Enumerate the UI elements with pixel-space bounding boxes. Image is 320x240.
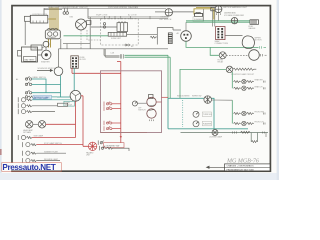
green wire top right 2 (186, 21, 250, 23)
starter motor circle (42, 50, 51, 59)
winding ticks (149, 105, 155, 121)
watermark red outline box (2, 163, 62, 172)
wire bottom cluster row 2 (105, 147, 129, 151)
olive link control box to bundle (48, 18, 56, 20)
svg-text:1976 MGB WIRING DIAGRAM: 1976 MGB WIRING DIAGRAM (108, 6, 138, 9)
red wire row 5 (37, 144, 84, 146)
lighting switch circle (70, 90, 81, 101)
battery bracket wire (18, 51, 22, 57)
red junction arrow (120, 136, 122, 138)
red wire box to green vertical (162, 96, 169, 98)
svg-text:SOLENOID SWITCH: SOLENOID SWITCH (38, 68, 56, 70)
svg-text:B6: B6 (131, 46, 133, 48)
label box flasher switch 2 (202, 121, 211, 126)
solenoid circle (54, 67, 63, 76)
bottom page edge strip (0, 173, 279, 180)
olive wire below dynamo 2 (50, 39, 52, 48)
teal box outline (168, 98, 248, 129)
teal wire bottom run (57, 96, 70, 98)
connector box left of control box (25, 16, 31, 21)
green vertical right lamps (231, 72, 233, 88)
wire ticks mid bottom (233, 131, 237, 133)
red wire vertical b (81, 96, 88, 147)
drop wire 2 (256, 133, 258, 142)
wire battery to starter (38, 54, 42, 56)
ignition switch circle (76, 19, 87, 30)
turn row end ticks (263, 113, 265, 125)
olive wire bundle 5 (57, 8, 59, 31)
red wire pin board drop (71, 68, 73, 73)
fuse ladder block (168, 33, 172, 44)
svg-text:VOLTAGE STABILISER: VOLTAGE STABILISER (224, 14, 245, 17)
dashed wire to horn (226, 54, 249, 56)
wire from relay box 2 (127, 33, 158, 35)
green wire top right 1 (186, 20, 250, 22)
small box on maroon area (149, 95, 154, 99)
drop wire 1 (250, 133, 252, 142)
rear lamp row 1 (234, 79, 254, 83)
green wire long mid-top (64, 35, 109, 37)
svg-text:Pressauto.NET: Pressauto.NET (2, 163, 55, 172)
maroon big box (101, 71, 162, 133)
dynamo coil circle 2 (53, 32, 57, 36)
svg-text:MAP LIGHT FEED: MAP LIGHT FEED (33, 97, 49, 100)
lamp row 5 symbol (23, 142, 37, 147)
wire dip to coils (137, 102, 146, 104)
maroon switch row 3 (104, 121, 112, 126)
yellow loop second line (196, 7, 212, 9)
teal wire switch 1 (32, 79, 46, 93)
svg-text:WINDSCREEN: WINDSCREEN (177, 96, 190, 98)
lamp row 7 symbol (23, 158, 37, 163)
dynamo coil circle 1 (48, 32, 52, 36)
green wire pair 2 (125, 56, 171, 58)
lighting switch label box (64, 101, 75, 106)
flasher switch circle 2 (193, 121, 199, 127)
red wire maroon row 2 (112, 108, 121, 110)
teal wire switch 3 (32, 92, 61, 94)
control box terminal ticks (33, 21, 44, 24)
wire top bus 1 (44, 7, 166, 9)
bus tick marks (104, 16, 150, 19)
green wire beam lamp feed (180, 69, 226, 98)
svg-text:NUMBER PLATE: NUMBER PLATE (44, 150, 59, 153)
lamp row 4 symbol (18, 135, 32, 140)
starter dot (45, 53, 48, 56)
gauge base dashes (216, 13, 220, 15)
lamp row 2 symbol (18, 103, 32, 108)
ignition switch spokes (77, 21, 86, 29)
wire vertical right of switch (89, 17, 91, 49)
resistor zigzag right of beam lamp (233, 68, 256, 70)
wire top bus 3 (88, 17, 168, 19)
bottom contact circles of dashed box (125, 44, 130, 46)
green wire end marks (260, 46, 267, 48)
terminal box on loop (211, 8, 215, 11)
lamp row 3 symbol (18, 109, 32, 114)
wire flasher drop (202, 9, 204, 21)
coil feed box (31, 45, 42, 50)
svg-text:BATTERY: BATTERY (25, 58, 35, 61)
title block box (225, 164, 271, 171)
wire into top lamp (155, 11, 165, 13)
control box feed riser (43, 8, 45, 15)
ignition coil circle (43, 41, 49, 47)
svg-text:A4: A4 (16, 78, 18, 81)
zigzag bottom 1 (241, 131, 251, 133)
label box flasher switch 1 (202, 112, 211, 117)
lower zigzag between drops (251, 141, 258, 143)
socket pins (183, 34, 188, 39)
relay contact circle 2 (103, 26, 105, 28)
wire top bus 1b (44, 9, 62, 11)
battery label box (24, 57, 37, 62)
svg-text:FUSE UNIT: FUSE UNIT (111, 38, 122, 40)
toggle switch 1 (25, 76, 31, 80)
relay box 1 (117, 21, 128, 31)
svg-text:TURN SIG: TURN SIG (203, 114, 212, 116)
lamp circle top center (165, 9, 172, 16)
dip switch circle (132, 101, 137, 106)
dotted vertical in teal box (182, 100, 184, 127)
teal wire pin board to lighting switch (73, 68, 75, 90)
bottom cluster switch row 2 (99, 146, 105, 151)
winding loop circle A (147, 97, 156, 106)
svg-text:RELAY: RELAY (218, 61, 225, 64)
svg-text:SWITCH: SWITCH (138, 110, 146, 112)
wire to relay box 1 (91, 26, 117, 28)
left page edge strip (0, 0, 2, 180)
red wire long vertical (120, 62, 122, 143)
wiper motor blob (242, 36, 254, 49)
watermark backing (2, 163, 62, 171)
wire row 7 (37, 160, 61, 162)
wire box to coil (42, 47, 46, 50)
maroon switch row 2 (104, 106, 112, 111)
green vertical right lower (231, 100, 233, 123)
end marks bottom wire (263, 132, 267, 138)
flasher switch circle 1 (193, 111, 199, 117)
svg-text:MOTOR: MOTOR (255, 40, 263, 42)
staircase wires into green pair (104, 49, 120, 58)
dashed wire L to relay box (87, 30, 101, 40)
svg-text:FRONT LH: FRONT LH (255, 122, 265, 124)
fuel gauge hatched box (250, 20, 259, 25)
headlamp circle 2 (38, 121, 45, 128)
svg-text:FROM BENTLEY BOTTOM: FROM BENTLEY BOTTOM (227, 169, 254, 171)
maroon wire bottom left run (101, 132, 148, 134)
yellow flasher loop (194, 9, 214, 20)
olive wire bundle 4 (55, 8, 57, 31)
control box (30, 15, 48, 23)
bottom cluster switch row 1 (98, 140, 104, 145)
arrow to title block (207, 166, 225, 168)
olive wire bundle 1 (49, 8, 51, 31)
svg-text:KEY SWITCH: KEY SWITCH (160, 19, 172, 21)
svg-text:COURTESY SW: COURTESY SW (105, 146, 120, 148)
red wire maroon row 3 (112, 122, 121, 124)
accessory socket circle (181, 31, 192, 42)
green wire from socket (186, 41, 259, 47)
maroon wire loop to box edge (156, 101, 161, 103)
svg-text:A5: A5 (177, 32, 179, 35)
svg-text:DIP MAIN: DIP MAIN (23, 131, 32, 134)
relay contact circle 1 (103, 23, 105, 25)
svg-text:STARTER: STARTER (41, 60, 50, 63)
svg-text:COIL: COIL (33, 48, 37, 50)
red wire row 4 (32, 137, 76, 139)
flasher label box (193, 17, 203, 22)
wire row 2 (32, 105, 58, 107)
horn pilot lamp (219, 52, 226, 59)
wire fusebox to right (173, 29, 181, 31)
bus connector circles (63, 8, 68, 14)
toggle switch 4 (25, 96, 34, 98)
olive wire bundle 3 (53, 8, 55, 31)
maroon switch row 4 (104, 126, 112, 131)
svg-text:REAR LH: REAR LH (255, 85, 263, 88)
wire stub mid (63, 44, 90, 49)
lamp row 1 symbol (18, 97, 32, 102)
toggle switch 2 (25, 82, 31, 86)
wire from connector down-left (24, 21, 26, 45)
wire row 6 (37, 152, 67, 154)
wire dynamo right drop (60, 39, 62, 49)
svg-text:REVERSE LAMP: REVERSE LAMP (44, 158, 59, 161)
svg-text:PANEL SWITCH: PANEL SWITCH (33, 76, 47, 79)
flasher unit box (195, 12, 203, 16)
rear lamp row 2 (234, 86, 254, 90)
label box row 2 (58, 103, 68, 106)
wire solenoid feed (58, 49, 60, 67)
svg-text:FRONT RH: FRONT RH (255, 112, 265, 114)
svg-text:C.08: C.08 (110, 53, 114, 55)
winding loop circle B (147, 109, 156, 118)
svg-text:CONNECTORS: CONNECTORS (215, 43, 229, 45)
svg-text:IGNITION WARNING LIGHT: IGNITION WARNING LIGHT (223, 6, 248, 9)
wire row 3 (32, 111, 55, 113)
warning gauge circle 1 (215, 6, 222, 13)
green wire vertical pair 1 (169, 57, 171, 98)
horn end marks (261, 54, 267, 56)
green wire vertical pair 2 (167, 55, 169, 98)
warning gauge circle 2 (231, 18, 237, 24)
row end ticks (263, 81, 265, 90)
beam lamp circle (226, 66, 233, 73)
red label box bottom cluster (104, 143, 125, 148)
page background (0, 0, 279, 180)
svg-text:STOP LAMP SWITCH: STOP LAMP SWITCH (44, 142, 62, 145)
horn circle (249, 50, 260, 61)
teal wire row 1 (32, 99, 71, 101)
wire to wiper (225, 34, 243, 36)
connector ticks green pair (120, 54, 123, 58)
olive wire bundle 2 (51, 8, 53, 31)
turn lamp row 1 (234, 111, 254, 115)
right page edge strip (277, 0, 279, 180)
red wire vertical a (75, 101, 77, 137)
svg-text:CHASSIS + IGN FUSEBOX: CHASSIS + IGN FUSEBOX (227, 165, 255, 168)
wire socket riser (185, 22, 187, 31)
teal wire switch 2 (32, 83, 61, 85)
relay box 2 (108, 32, 126, 36)
wire between headlamps (33, 123, 38, 125)
arrow to solenoid (37, 69, 53, 71)
teal wire strip to junction (52, 96, 58, 98)
svg-text:FLASHER: FLASHER (203, 123, 212, 126)
bus junction riser (87, 8, 89, 18)
svg-text:REAR RH: REAR RH (255, 79, 264, 82)
lamp row 6 symbol (23, 151, 37, 156)
red wire horizontal into maroon box (72, 72, 121, 74)
teal wire solenoid drop (60, 76, 62, 97)
maroon switch row 1 (104, 102, 112, 107)
red wire maroon row 1 (112, 103, 121, 105)
dynamo body (45, 30, 60, 39)
svg-text:BLOCK: BLOCK (80, 59, 87, 61)
svg-text:A2 LOOM: A2 LOOM (128, 13, 137, 16)
turn lamp row 2 (234, 121, 254, 125)
svg-text:SNAP CONN: SNAP CONN (96, 13, 108, 16)
connector block (216, 27, 225, 40)
green wire to horn lamp (210, 47, 219, 55)
long bottom wire (181, 132, 269, 134)
wire top bus 2 (88, 16, 168, 18)
wire wheel to rows (212, 99, 233, 101)
fuse pin board (71, 56, 79, 69)
red mark on left edge (0, 149, 2, 155)
svg-text:LICENSE LAMP: LICENSE LAMP (209, 135, 223, 138)
headlamp circle 1 (26, 121, 33, 128)
dashed relay box (101, 19, 139, 45)
svg-text:WIPER SW: WIPER SW (192, 96, 202, 98)
svg-text:GAUGE: GAUGE (249, 27, 257, 30)
small box on wire (87, 21, 92, 25)
wheel switch circle on teal edge (204, 96, 212, 104)
wire gauge1 drop (217, 15, 219, 21)
blue label strip (33, 95, 52, 99)
toggle switch 3 (25, 90, 31, 94)
olive wire below dynamo 1 (48, 39, 50, 48)
wire lamp to flasher loop (173, 11, 194, 13)
red wire headlamp feed (46, 123, 76, 125)
red wire maroon row 4 (112, 128, 121, 130)
battery outer box (22, 47, 38, 62)
hazard flower symbol (88, 142, 96, 150)
green wire pair 1 (125, 54, 169, 56)
lamp cross top center (165, 9, 172, 16)
red wire top jog (117, 61, 121, 63)
dynamo scallops (48, 28, 58, 30)
svg-text:DYNAMO: DYNAMO (48, 36, 57, 39)
dashed wire below ignition switch (80, 30, 82, 49)
wire horizontal mid (59, 48, 169, 50)
warning gauge cross 1 (215, 6, 222, 13)
warning gauge cross 2 (231, 18, 237, 24)
riser wires to connector block (213, 9, 215, 27)
zigzag into fusebox (150, 36, 157, 38)
svg-text:COURTESY LAMP CIRCUIT: COURTESY LAMP CIRCUIT (231, 73, 255, 76)
license lamp circle (212, 130, 218, 136)
wire fusebox frame (157, 28, 173, 45)
border frame (12, 6, 270, 172)
